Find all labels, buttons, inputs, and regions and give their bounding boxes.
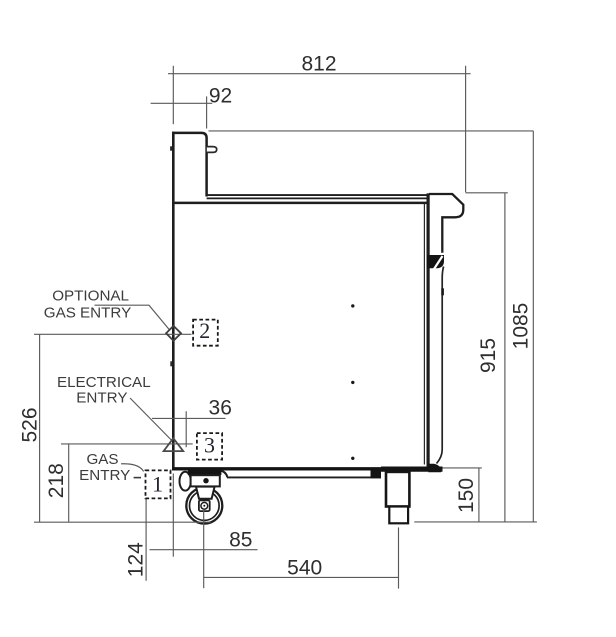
svg-text:ENTRY: ENTRY [79,467,130,484]
dim 85 witness wheel [203,508,205,588]
ground line right [414,521,537,523]
dim 92 witness [206,96,208,128]
castor wheel outer [186,488,222,524]
castor hub [199,500,210,511]
leader gas entry [121,464,144,472]
castor fork [196,487,215,499]
dim 85 line [150,549,258,551]
rear foot lower [389,507,408,524]
svg-text:OPTIONAL: OPTIONAL [52,288,129,305]
side panel rear thin edge [423,204,425,465]
svg-text:36: 36 [209,396,232,419]
dim 1085 line [532,131,534,522]
callout box 1 [146,470,171,498]
rear thick vertical edge [427,193,430,470]
gas inlet pipe ellipse [180,472,191,491]
svg-text:2: 2 [199,318,210,343]
svg-text:1: 1 [152,471,163,496]
bottom recessed line [227,476,381,478]
bottom bold edge [172,467,443,470]
dim 812 witness right [465,66,467,193]
callout box 3 [197,433,222,460]
svg-text:GAS: GAS [86,451,118,468]
dim 124 line [145,499,147,581]
bottom step block [371,470,382,478]
svg-text:218: 218 [45,463,68,498]
worktop surface double line [207,194,430,196]
castor mount pivot dot [203,478,208,483]
rear foot upper [386,472,409,507]
leader electrical entry [130,398,172,441]
dim 915 ref line [466,192,508,194]
svg-text:540: 540 [287,556,322,579]
dim 150 line [478,468,480,522]
svg-text:150: 150 [455,478,478,513]
electrical entry triangle [164,438,184,451]
castor top bar [188,469,222,475]
svg-text:92: 92 [209,85,232,108]
flue upstand [172,133,206,197]
dim 150 ref line [443,467,482,469]
panel dot 2 [351,381,354,384]
front edge tick upper [170,146,172,150]
dim 526 line [39,334,41,522]
callout box 2 [193,320,218,346]
svg-text:85: 85 [229,528,252,551]
dim 812 witness left [172,66,174,124]
dim 540 right witness [398,527,400,588]
svg-text:526: 526 [18,407,41,442]
dim 36 witness [185,411,187,447]
svg-text:1085: 1085 [509,303,532,350]
extension line from upstand top (1085 ref) [209,130,534,132]
dim 85 witness front [172,474,174,557]
dim 526 top tick [34,333,192,335]
body front edge [172,132,175,471]
door bottom blob [428,464,441,473]
svg-text:3: 3 [204,432,215,457]
front edge tick lower [170,361,172,366]
gas entry dash [134,477,141,479]
panel dot 3 [351,457,354,460]
panel dot 1 [351,304,354,307]
svg-text:812: 812 [301,53,336,76]
dim 915 line [504,193,506,522]
castor hub circle [201,502,208,509]
svg-text:124: 124 [125,542,148,577]
svg-text:915: 915 [477,338,500,373]
bullnose control panel outline [429,194,463,253]
bottom recess jog [219,471,227,478]
svg-text:ENTRY: ENTRY [76,389,127,406]
door hinge blob [427,255,444,268]
ground line left [34,521,211,523]
castor hub dot [203,505,205,507]
dim 540 line [204,576,399,578]
door face line [437,267,444,464]
castor mount box [191,475,220,486]
dim 92 line [151,102,213,104]
svg-text:GAS ENTRY: GAS ENTRY [44,305,132,322]
dim 36 line [152,417,226,419]
upstand nub [207,147,217,153]
door hinge white slash [434,256,443,269]
cabinet top edge [172,202,427,205]
bottom bold edge rear section [381,467,443,472]
door face tick [441,288,444,295]
dim 218 top tick [61,443,193,445]
castor wheel ring [190,491,220,521]
dim 218 line [68,444,70,522]
leader optional gas entry [95,305,170,330]
dim 812 line [168,73,471,75]
optional gas entry diamond [166,326,181,341]
